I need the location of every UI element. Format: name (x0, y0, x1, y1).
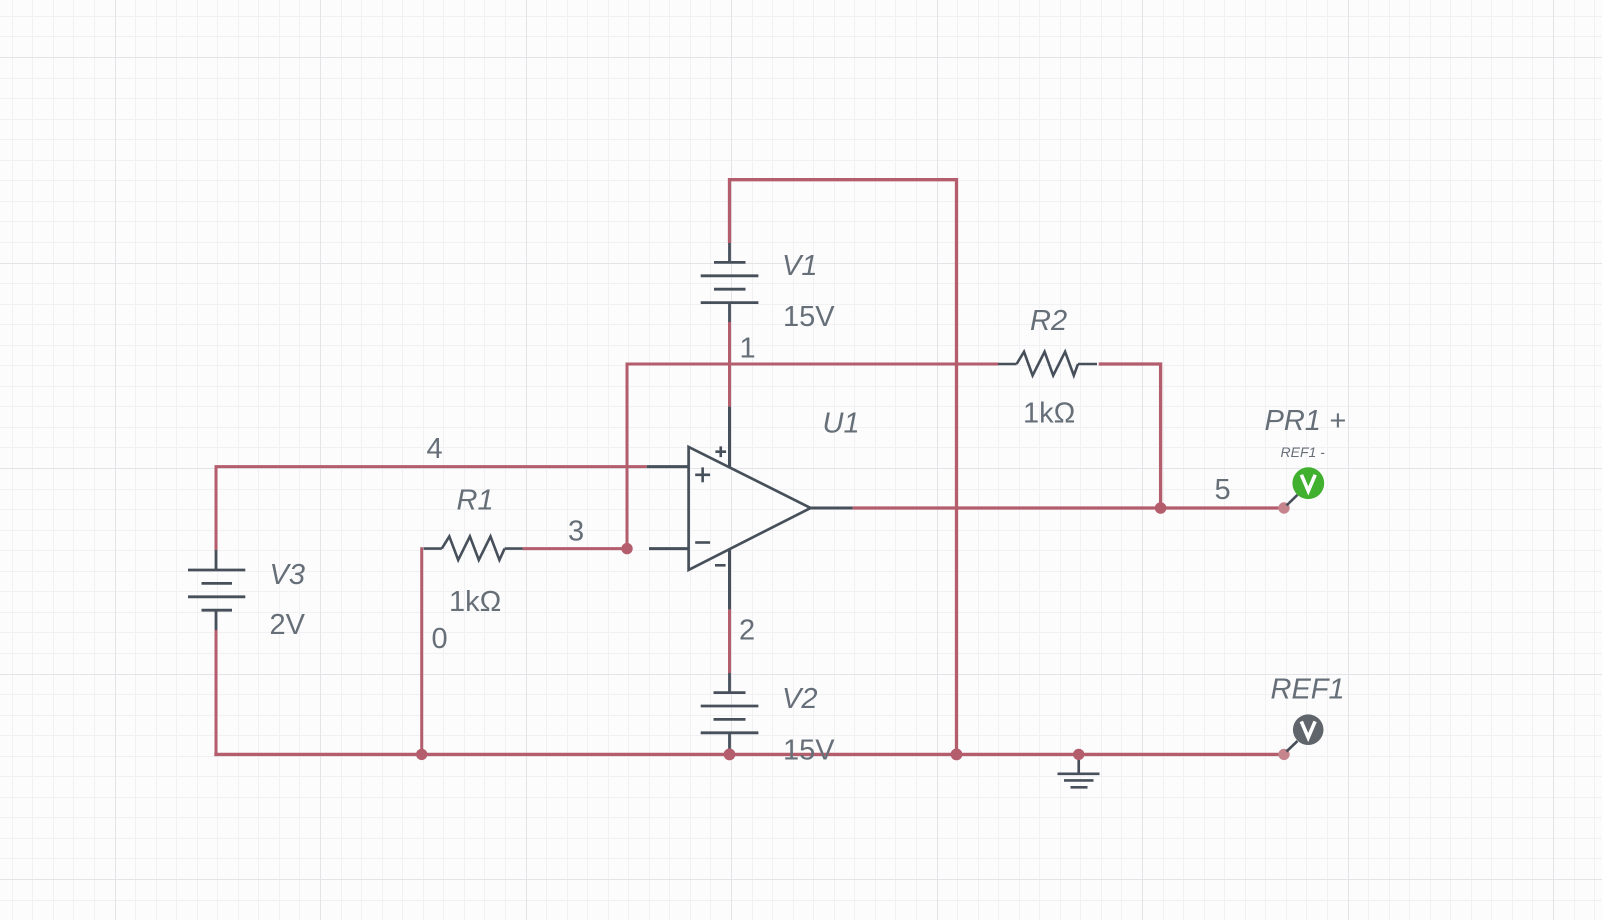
endpoint node net 0 (1278, 749, 1289, 760)
probe REF1 (1287, 714, 1324, 751)
svg-text:R2: R2 (1030, 305, 1067, 337)
svg-text:R1: R1 (457, 484, 494, 516)
svg-text:15V: 15V (783, 301, 835, 333)
resistor R2 (998, 352, 1097, 376)
wire net 0: bottom ground bus (214, 753, 1284, 756)
junction net 0 / V2 (724, 749, 736, 761)
wire net 0: V1 - terminal top loop over and down to ground bus (730, 180, 957, 755)
svg-text:1kΩ: 1kΩ (449, 586, 501, 618)
svg-text:V2: V2 (782, 683, 817, 715)
svg-text:1: 1 (740, 333, 756, 365)
wire net 0: R1 left branch down to bus (420, 547, 423, 754)
wire net 5: op-amp output right to probe, R2 right drop (853, 364, 1284, 508)
svg-text:3: 3 (568, 515, 584, 547)
junction net 0 / R1 branch (416, 749, 427, 760)
battery V1 (701, 243, 759, 322)
junction net 5 / R2 (1155, 502, 1167, 514)
svg-text:PR1 +: PR1 + (1265, 405, 1346, 437)
svg-text:V1: V1 (782, 250, 817, 282)
svg-text:V3: V3 (270, 559, 305, 591)
op-amp U1 (647, 407, 853, 610)
wire: V3 - terminal down to net 0 bus (215, 630, 218, 756)
svg-text:5: 5 (1215, 474, 1231, 506)
wire net 4: V3 + terminal up and right to U1 noninverting input (216, 467, 647, 550)
wire net 1: V1 + terminal down to U1 positive supply pin (728, 322, 731, 407)
wire net 2: U1 negative supply pin down to V2 + terminal (728, 609, 731, 673)
svg-text:4: 4 (427, 433, 443, 465)
probe PR1 (1287, 467, 1325, 505)
svg-text:REF1: REF1 (1271, 674, 1345, 706)
ground (1058, 754, 1100, 787)
svg-text:REF1 -: REF1 - (1281, 444, 1326, 460)
battery V3 (188, 550, 245, 630)
battery V2 (701, 673, 759, 754)
junction net 0 / top loop (951, 749, 963, 761)
resistor R1 (424, 536, 523, 560)
svg-text:15V: 15V (783, 735, 835, 767)
svg-text:2V: 2V (270, 609, 306, 641)
junction net 0 / ground (1073, 749, 1084, 760)
junction net 3 at inverting input (621, 543, 632, 554)
endpoint node net 5 (1278, 502, 1289, 513)
svg-text:2: 2 (739, 615, 755, 647)
svg-text:0: 0 (432, 623, 448, 655)
svg-text:U1: U1 (823, 407, 860, 439)
wire net 3: R1 right lead to inverting input, up and over to R2 left (523, 364, 998, 549)
svg-text:1kΩ: 1kΩ (1023, 398, 1075, 430)
